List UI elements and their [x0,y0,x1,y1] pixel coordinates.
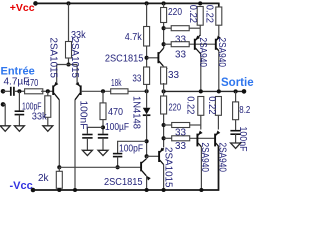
wire to 100nF [87,127,103,133]
node T3 base [145,154,149,158]
node bias column [145,89,149,93]
node driver base [145,56,149,60]
ground under 33k [47,117,49,126]
node VAS base [57,165,61,169]
svg-text:+Vcc: +Vcc [10,2,35,14]
svg-text:2SA1015: 2SA1015 [69,38,80,79]
capacitor 100pF comp [118,141,147,153]
resistor 33 (top2) [164,43,172,45]
wire Q2 base to feedback node [81,90,111,92]
transistor Q8 2SA940 [214,134,216,147]
svg-text:2SA940: 2SA940 [216,38,227,68]
svg-text:220: 220 [169,103,182,114]
node out x235 [234,89,238,93]
wire output rail [164,90,244,92]
wire driver base [147,57,158,59]
svg-text:0.22: 0.22 [185,96,196,115]
wire base bus top [189,43,216,45]
svg-text:0.22: 0.22 [204,5,215,24]
output terminal [242,89,247,94]
svg-text:33k: 33k [32,111,48,122]
resistor 18k [111,89,128,94]
ground under output 100nF [235,134,237,143]
+Vcc terminal [33,1,38,6]
svg-text:2SA1015: 2SA1015 [162,147,173,188]
transistor Q9 2SC1815 VAS [140,162,142,172]
svg-text:2SC1815: 2SC1815 [104,177,143,188]
node top rail x200 [198,1,202,5]
wire 470 to base [41,90,53,92]
node out x200 [199,89,203,93]
ground under 100pF input [18,115,20,126]
ground under 100nF [86,138,88,150]
resistor 470 input [25,89,43,94]
ground input [0,126,10,132]
node 33 low2 [162,136,166,140]
svg-text:2k: 2k [38,173,50,184]
resistor 470 feedback [102,91,104,103]
resistor 0.22 (low1) [198,97,204,116]
node bottom rail Q2 [73,188,77,192]
diode 1N4148 [146,91,148,108]
wire input to cap [3,90,10,92]
resistor 220 mid [161,96,167,114]
svg-text:100nF: 100nF [78,101,89,130]
transistor Q4 2SA1015 (bias) [158,151,160,162]
svg-text:100pF: 100pF [119,144,143,155]
capacitor 100nF feedback [82,134,92,136]
node comp cap [145,139,149,143]
capacitor 4.7uF [10,87,12,96]
resistor 2k [58,167,60,171]
svg-text:33: 33 [175,141,186,152]
node bottom rail Q4 [162,188,166,192]
node base T1 [46,89,50,93]
resistor 33k tail [66,42,72,59]
svg-text:1N4148: 1N4148 [131,96,142,129]
resistor 33 mid [161,67,167,84]
wire T3 base [147,155,159,157]
transistor Q3 2SC1815 driver [157,52,159,63]
node feedback [101,89,105,93]
svg-text:2SA940: 2SA940 [199,143,210,173]
ground under 100uF [102,138,104,150]
node out x219 [217,89,221,93]
capacitor 100uF feedback [98,134,108,136]
node top rail x163 [162,1,166,5]
svg-text:220: 220 [168,7,182,18]
transistor Q1 2SA1015 (input pair left) [52,85,54,95]
resistor 4.7k [146,3,148,26]
node bottom rail VAS [145,188,149,192]
capacitor 100nF output [235,120,237,130]
wire Q2 collector to -Vcc [74,100,76,190]
svg-text:100µF: 100µF [105,122,129,133]
wire 33k to emitters node [68,58,70,65]
resistor 33 (low1) [164,124,172,126]
node bottom rail Q7 [199,188,203,192]
transistor Q2 2SA1015 (input pair right) [80,85,82,95]
svg-text:4.7k: 4.7k [125,32,143,43]
node 33 top1 [162,26,166,30]
transistor Q7 2SA940 [196,134,198,147]
svg-text:8.2: 8.2 [239,105,250,116]
wire cap to node [14,90,25,92]
capacitor 100pF input [18,91,20,111]
node top rail x147 [145,1,149,5]
svg-text:-Vcc: -Vcc [10,180,33,192]
node top rail x68 [66,1,70,5]
resistor 8.2 [235,91,237,102]
node 100pF base [116,165,120,169]
input terminal [1,89,6,94]
wire 4.7k to driver base node [146,46,148,91]
node feedback shunt [101,125,105,129]
wire Q1 collector down [58,100,60,168]
transistor Q6 2SA940 [215,39,217,50]
svg-text:2SA1015: 2SA1015 [48,38,59,79]
wire input gnd [3,104,5,125]
svg-text:33: 33 [168,70,179,81]
wire base bus low [190,137,215,139]
resistor 0.22 (top2) [218,3,220,7]
resistor 0.22 (low2) [215,97,221,116]
resistor 33 (low2) [164,137,172,139]
wire to VAS collector [146,156,148,159]
node 33 top2 [162,42,166,46]
input ground terminal [1,102,6,107]
node bottom rail 2k [57,188,61,192]
-Vcc terminal [31,188,36,193]
svg-text:100nF: 100nF [237,127,248,152]
svg-text:470: 470 [108,107,123,118]
svg-text:Sortie: Sortie [221,77,254,89]
svg-text:2SA940: 2SA940 [197,38,208,68]
resistor 33 (top1) [164,27,172,29]
resistor 0.22 (top1) [197,7,203,26]
wire 33k tail from rail [68,3,70,41]
svg-text:18k: 18k [111,78,122,89]
resistor 33 bias column [144,67,150,84]
wire VAS base [59,166,140,168]
svg-text:0.22: 0.22 [187,5,198,24]
wire emitter bus [57,64,77,66]
wire 18k to bias column [128,90,147,92]
node out x163 [162,89,166,93]
svg-text:33: 33 [175,50,186,61]
svg-text:470: 470 [26,78,39,89]
transistor Q5 2SA940 [194,39,196,50]
node 33 low1 [162,123,166,127]
node input filter [17,89,21,93]
svg-text:0.22: 0.22 [206,96,217,115]
svg-text:33: 33 [132,74,141,85]
wire top rail [36,2,220,4]
node emitters [66,62,70,66]
resistor 33k lower [47,91,49,96]
svg-text:2SC1815: 2SC1815 [105,54,144,65]
wire bottom rail [33,146,219,190]
resistor 220 top [163,3,165,7]
